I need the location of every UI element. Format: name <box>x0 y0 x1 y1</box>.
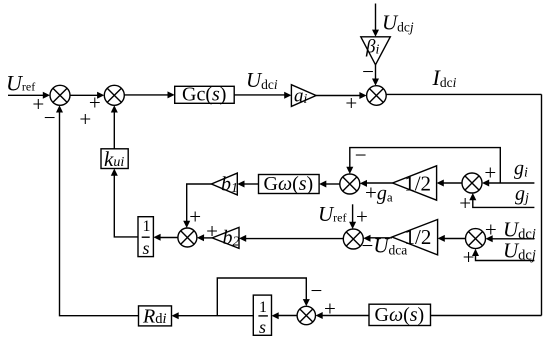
wire gi input to S6 <box>482 180 534 187</box>
svg-text:−: − <box>362 59 374 83</box>
block Gomega(s) bottom <box>369 304 431 326</box>
svg-text:s: s <box>259 317 266 337</box>
label Udcj right <box>503 238 536 263</box>
svg-text:+: + <box>356 204 368 228</box>
wire Gomega mid to b1 <box>237 181 258 188</box>
wire S4 to right bus <box>386 93 541 95</box>
summing junction S8 <box>343 229 363 249</box>
wire S6 to half top <box>437 180 462 187</box>
wire S2 to Gc(s) <box>124 91 174 98</box>
wire Gc(s) to gain ai <box>234 92 291 99</box>
wire S8 to b2 <box>239 235 343 242</box>
wire S1 to S2 <box>70 92 104 99</box>
wire half bottom to S8 <box>363 235 392 242</box>
svg-text:−: − <box>311 279 323 303</box>
sign minus at S5 top input <box>355 143 367 167</box>
svg-text:+: + <box>189 205 201 229</box>
label Udcj <box>382 11 414 35</box>
svg-text:Udcj: Udcj <box>382 11 414 35</box>
wire Uref to S8 <box>349 204 356 229</box>
svg-text:Gc(s): Gc(s) <box>182 84 226 106</box>
sign plus at S8 top input <box>356 204 368 228</box>
block Rdi <box>139 306 172 328</box>
wire b2 to S3 <box>197 234 212 241</box>
sign minus at S9 top input <box>311 279 323 303</box>
wire feedback around integrator bottom <box>217 278 309 316</box>
sign plus at S9 right input <box>324 296 336 320</box>
svg-text:1: 1 <box>143 218 151 235</box>
wire Udcj input to beta <box>372 4 379 37</box>
label Uref second <box>318 202 347 226</box>
summing junction S5 <box>340 174 360 194</box>
block 1/s mid <box>138 217 153 258</box>
sign plus at S6 bottom input <box>459 191 471 215</box>
svg-text:+: + <box>32 92 44 116</box>
gain triangle b1 <box>211 173 238 196</box>
summing junction S1 <box>50 85 70 105</box>
svg-text:+: + <box>459 191 471 215</box>
wire bus to Gomega bottom <box>431 315 542 317</box>
svg-text:b2: b2 <box>223 227 240 250</box>
svg-text:Idci: Idci <box>432 65 457 90</box>
wire S3 to 1/s mid <box>153 234 178 241</box>
sign plus at S2 bottom input <box>79 107 91 131</box>
wire ai to S4 <box>316 92 367 99</box>
sign plus at b2 input <box>206 219 218 243</box>
svg-text:+: + <box>79 107 91 131</box>
svg-text:1: 1 <box>259 299 267 316</box>
svg-text:Udci: Udci <box>246 68 278 92</box>
wire S9 to 1/s bottom <box>272 312 298 319</box>
gain triangle ai <box>291 85 316 107</box>
wire gi pickoff to S5 <box>346 148 500 183</box>
sign minus at S1 bottom input <box>44 106 56 130</box>
wire kui to S2 <box>111 105 118 149</box>
gain triangle half bottom <box>392 220 438 255</box>
wire Udci input to S7 <box>486 235 535 242</box>
wire S7 to half bottom <box>438 235 466 242</box>
wire Udcj input to S7 <box>472 249 534 261</box>
label plus ga <box>365 181 393 205</box>
svg-text:+ga: +ga <box>365 181 393 205</box>
gain triangle b2 <box>212 227 239 250</box>
label Idci <box>432 65 457 90</box>
svg-text:Rdi: Rdi <box>142 306 167 328</box>
wire b1 to S3 <box>183 184 211 228</box>
sign plus at S2 left input <box>89 91 101 115</box>
summing junction S7 <box>466 229 486 249</box>
block Gc(s) <box>175 84 235 106</box>
sign plus at S6 right input <box>484 161 496 185</box>
svg-text:gj: gj <box>515 183 529 206</box>
sign plus at S7 right input <box>485 217 497 241</box>
sign plus at S7 bottom input <box>463 245 475 269</box>
summing junction S3 <box>178 228 197 247</box>
label gi <box>514 158 528 181</box>
svg-text:1/2: 1/2 <box>404 172 431 196</box>
wire gj input to S6 <box>469 193 534 207</box>
sign plus at S3 top input <box>189 205 201 229</box>
wire half top to S5 <box>360 180 393 187</box>
block Gomega(s) mid <box>259 173 320 195</box>
svg-text:ai: ai <box>294 86 308 107</box>
gain triangle beta i <box>361 37 391 65</box>
sign plus at S4 left input <box>345 91 357 115</box>
label gj <box>515 183 529 206</box>
svg-text:+: + <box>345 91 357 115</box>
gain triangle half top <box>393 166 437 200</box>
label Udci right <box>503 217 536 242</box>
svg-text:b1: b1 <box>221 173 238 196</box>
svg-text:−: − <box>355 143 367 167</box>
wire 1/s bottom to Rdi <box>172 312 254 319</box>
wire Gomega bottom to S9 <box>316 312 370 319</box>
wire Rdi feedback to S1 <box>56 105 139 315</box>
svg-text:+: + <box>324 296 336 320</box>
svg-text:Gω(s): Gω(s) <box>264 173 314 195</box>
svg-text:kui: kui <box>104 147 124 171</box>
svg-text:s: s <box>143 238 150 258</box>
svg-text:βi: βi <box>365 37 379 58</box>
summing junction S9 <box>297 306 315 324</box>
block kui <box>101 147 128 171</box>
svg-text:Uref: Uref <box>6 71 35 96</box>
svg-text:−: − <box>44 106 56 130</box>
svg-text:Uref: Uref <box>318 202 347 226</box>
summing junction S4 <box>367 86 387 106</box>
label minus Udca <box>362 234 408 258</box>
wire beta to S4 <box>372 65 379 86</box>
summing junction S2 <box>104 85 124 105</box>
wire 1/s mid to kui <box>111 169 138 237</box>
summing junction S6 <box>462 173 482 193</box>
wire right bus vertical <box>541 94 543 315</box>
svg-text:1/2: 1/2 <box>405 225 432 249</box>
block 1/s bottom <box>253 295 271 337</box>
sign minus at S4 top input <box>362 59 374 83</box>
wire input to S1 <box>8 92 50 99</box>
wire S5 to Gomega mid <box>319 181 340 188</box>
svg-text:Gω(s): Gω(s) <box>375 304 425 326</box>
label Uref input <box>6 71 35 96</box>
label Udci <box>246 68 278 92</box>
svg-text:gi: gi <box>514 158 528 181</box>
sign plus at S1 left input <box>32 92 44 116</box>
